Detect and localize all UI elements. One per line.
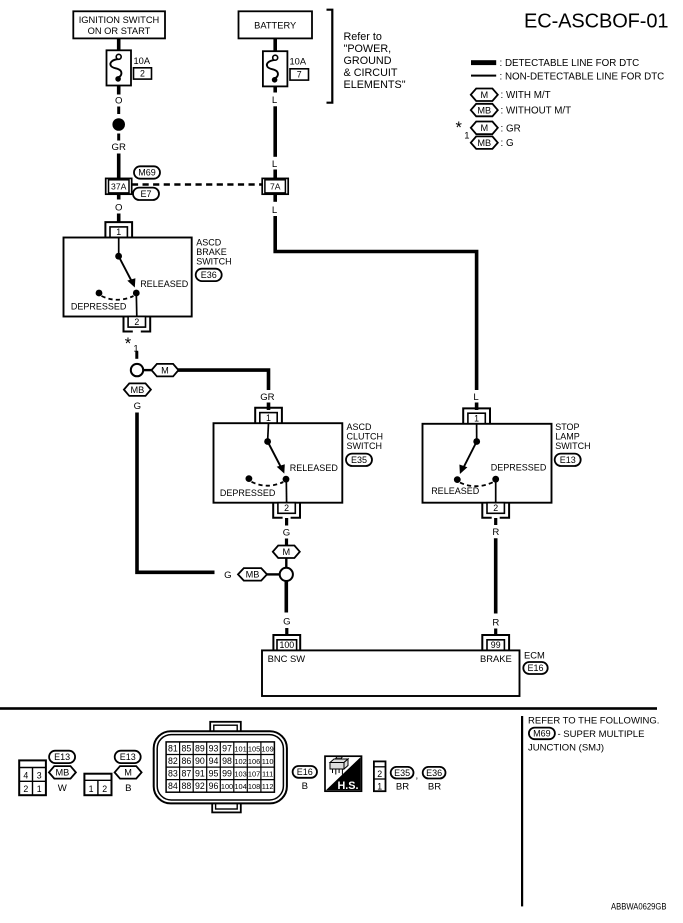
wire hexagon to joint bbox=[285, 558, 287, 568]
svg-text:H.S.: H.S. bbox=[338, 780, 359, 792]
fuse 10A no.7 bbox=[263, 51, 288, 86]
terminal 99 BRAKE bbox=[482, 635, 509, 650]
wire below fuse 2 bbox=[117, 86, 121, 95]
svg-text:ABBWA0629GB: ABBWA0629GB bbox=[611, 900, 667, 911]
stop lamp switch depressed contact bbox=[492, 476, 499, 483]
wire into clutch terminal bbox=[267, 403, 271, 411]
svg-text:E16: E16 bbox=[527, 663, 543, 673]
fuse number box 2 bbox=[134, 68, 152, 79]
svg-text:W: W bbox=[58, 783, 68, 794]
svg-text:M: M bbox=[480, 90, 488, 100]
legend: non-detectable line sample bbox=[471, 75, 496, 77]
connector oval M69 bbox=[134, 166, 160, 178]
clutch switch depressed contact bbox=[246, 475, 253, 482]
ASCD brake switch box E36 bbox=[64, 238, 192, 317]
terminal 100 BNC SW bbox=[273, 635, 300, 650]
svg-text:Refer to: Refer to bbox=[344, 31, 382, 43]
svg-text:1: 1 bbox=[474, 414, 479, 424]
dashed arc depressed-released clutch bbox=[252, 482, 284, 486]
svg-text:7A: 7A bbox=[270, 182, 281, 192]
clutch switch arm arrow to released bbox=[268, 442, 281, 467]
svg-text:: GR: : GR bbox=[501, 123, 521, 134]
svg-text:B: B bbox=[125, 783, 131, 794]
legend: detectable line sample bbox=[471, 60, 496, 65]
connector oval E16 bbox=[523, 662, 547, 674]
wire into brake switch terminal bbox=[117, 214, 121, 224]
svg-text:: WITH M/T: : WITH M/T bbox=[501, 90, 551, 101]
svg-text:1: 1 bbox=[37, 784, 42, 794]
option hexagon M clutch output bbox=[273, 546, 300, 559]
svg-text:E13: E13 bbox=[54, 752, 70, 762]
svg-text:2: 2 bbox=[284, 503, 289, 513]
ASCD clutch switch box E35 bbox=[214, 423, 343, 503]
H.S. data link mark bbox=[325, 756, 362, 792]
svg-text:1: 1 bbox=[464, 131, 469, 142]
connector oval E36 bbox=[423, 767, 446, 779]
ASCD clutch switch name bbox=[347, 422, 384, 451]
svg-text:DEPRESSED: DEPRESSED bbox=[71, 302, 127, 312]
legend hexagon MB without M/T bbox=[471, 104, 498, 117]
wire MB branch G down and right bbox=[137, 413, 215, 573]
svg-text:90: 90 bbox=[195, 756, 205, 766]
wire dash segment bbox=[117, 134, 120, 141]
vertical separator rule bbox=[521, 716, 523, 906]
svg-text:SWITCH: SWITCH bbox=[196, 256, 232, 266]
wire battery to fuse bbox=[273, 38, 277, 52]
ASCD brake switch name bbox=[196, 238, 232, 267]
svg-text:37A: 37A bbox=[111, 182, 127, 192]
joint circle brake output bbox=[131, 364, 143, 376]
ECM connector face E16 outline bbox=[154, 722, 287, 813]
inline connector 37A (SMJ) bbox=[106, 178, 132, 194]
clutch switch released contact bbox=[283, 476, 290, 483]
wire below clutch terminal 2 bbox=[285, 518, 288, 526]
stop lamp switch contact from terminal 1 bbox=[476, 424, 478, 442]
svg-text:BNC SW: BNC SW bbox=[268, 653, 306, 664]
svg-text:99: 99 bbox=[222, 769, 232, 779]
svg-text:- SUPER MULTIPLE: - SUPER MULTIPLE bbox=[558, 729, 645, 740]
brake switch arm arrow to released bbox=[119, 256, 132, 280]
wire dash segment bbox=[117, 107, 120, 115]
svg-text:2: 2 bbox=[134, 317, 139, 327]
svg-text:: DETECTABLE LINE FOR DTC: : DETECTABLE LINE FOR DTC bbox=[500, 58, 640, 69]
connector face E13 2-pin (M) bbox=[84, 774, 111, 796]
wire into terminal 99 bbox=[494, 629, 497, 636]
svg-text:"POWER,: "POWER, bbox=[344, 43, 392, 55]
svg-text:,: , bbox=[416, 771, 419, 782]
svg-text:83: 83 bbox=[168, 769, 178, 779]
wire L long segment bbox=[273, 106, 277, 157]
svg-text:E16: E16 bbox=[297, 767, 313, 777]
wire M branch to ASCD clutch switch bbox=[178, 370, 269, 390]
wire into stop lamp terminal bbox=[475, 403, 479, 411]
svg-text:JUNCTION (SMJ): JUNCTION (SMJ) bbox=[528, 742, 604, 753]
wire GR to connector 37A bbox=[117, 154, 121, 181]
svg-text:M: M bbox=[282, 547, 290, 557]
battery box bbox=[239, 11, 313, 38]
svg-text:2: 2 bbox=[23, 784, 28, 794]
svg-text:87: 87 bbox=[182, 769, 192, 779]
clutch switch contact from terminal 1 bbox=[267, 423, 270, 441]
stop lamp switch arm arrow to released bbox=[464, 442, 477, 467]
svg-text:92: 92 bbox=[195, 781, 205, 791]
wire MB hexagon to joint bbox=[267, 573, 280, 575]
svg-text:BATTERY: BATTERY bbox=[254, 21, 296, 31]
fuse number box 7 bbox=[290, 69, 309, 80]
svg-text:G: G bbox=[134, 401, 141, 412]
svg-text:2: 2 bbox=[377, 769, 382, 779]
svg-text:GR: GR bbox=[112, 142, 126, 153]
connector oval E13 (4-pin) bbox=[49, 751, 75, 763]
hexagon MB (4-pin connector) bbox=[49, 766, 76, 779]
brake switch contact from terminal 1 bbox=[118, 238, 120, 257]
horizontal separator rule bbox=[0, 707, 657, 710]
brake switch released contact bbox=[133, 290, 140, 297]
svg-text:109: 109 bbox=[261, 744, 273, 753]
svg-text:2: 2 bbox=[493, 503, 498, 513]
svg-text:1: 1 bbox=[377, 781, 382, 791]
svg-text:2: 2 bbox=[102, 784, 107, 794]
svg-text:3: 3 bbox=[37, 770, 42, 780]
dashed arc depressed-released bbox=[102, 296, 134, 300]
ECM box E16 bbox=[262, 650, 520, 696]
wire below stop terminal 2 bbox=[494, 518, 497, 525]
svg-text:107: 107 bbox=[248, 770, 260, 779]
svg-text:G: G bbox=[283, 527, 290, 538]
svg-text:ON OR START: ON OR START bbox=[88, 26, 151, 36]
svg-text:93: 93 bbox=[209, 743, 219, 753]
hexagon M (2-pin connector) bbox=[115, 766, 142, 779]
stop lamp switch released contact bbox=[454, 476, 461, 483]
svg-text:10A: 10A bbox=[134, 56, 151, 66]
wire ignition switch to fuse bbox=[117, 38, 121, 51]
svg-text:1: 1 bbox=[266, 413, 271, 423]
svg-text:: WITHOUT M/T: : WITHOUT M/T bbox=[501, 106, 572, 117]
svg-text:EC-ASCBOF-01: EC-ASCBOF-01 bbox=[524, 11, 668, 33]
svg-text:: NON-DETECTABLE LINE FOR DTC: : NON-DETECTABLE LINE FOR DTC bbox=[500, 71, 665, 82]
svg-text:85: 85 bbox=[182, 743, 192, 753]
wire to hexagon M bbox=[285, 539, 288, 546]
wire battery branch to stop lamp switch bbox=[275, 216, 476, 390]
svg-text:O: O bbox=[115, 202, 122, 213]
terminal 1 of ASCD brake switch bbox=[105, 222, 132, 237]
svg-text:R: R bbox=[492, 527, 499, 538]
svg-text:E35: E35 bbox=[394, 768, 410, 778]
connector oval E7 bbox=[133, 188, 159, 200]
svg-text:ELEMENTS": ELEMENTS" bbox=[344, 79, 406, 91]
connector face E35/E36 2-pin vertical bbox=[374, 761, 386, 791]
option hexagon M with M/T bbox=[152, 364, 179, 377]
svg-text:BR: BR bbox=[428, 782, 441, 793]
connector oval M69 (note) bbox=[529, 728, 555, 740]
wire below 7A bbox=[273, 194, 277, 202]
svg-text:E36: E36 bbox=[426, 768, 442, 778]
svg-text:7: 7 bbox=[297, 70, 302, 80]
svg-text:R: R bbox=[492, 618, 499, 629]
svg-text:L: L bbox=[272, 159, 278, 170]
svg-text:88: 88 bbox=[182, 781, 192, 791]
svg-text:111: 111 bbox=[262, 770, 273, 779]
svg-text:105: 105 bbox=[248, 744, 260, 753]
svg-text:112: 112 bbox=[262, 782, 274, 791]
dashed link between 37A and 7A bbox=[132, 183, 262, 185]
refer-to note text bbox=[344, 31, 406, 91]
svg-text:98: 98 bbox=[222, 756, 232, 766]
svg-text:L: L bbox=[473, 392, 479, 403]
connector oval E35 bbox=[346, 454, 372, 466]
svg-text:REFER TO THE FOLLOWING.: REFER TO THE FOLLOWING. bbox=[528, 715, 659, 726]
fuse 10A no.2 bbox=[107, 50, 132, 85]
svg-text:104: 104 bbox=[234, 782, 246, 791]
wire dash below *1 bbox=[135, 352, 138, 359]
svg-text:M: M bbox=[480, 123, 488, 133]
wire joint to hexagon M bbox=[143, 369, 152, 371]
ECM connector pin grid bbox=[166, 742, 274, 792]
svg-text:BRAKE: BRAKE bbox=[480, 653, 512, 664]
wire below 37A bbox=[117, 193, 121, 200]
svg-text:RELEASED: RELEASED bbox=[140, 279, 189, 289]
svg-text:BR: BR bbox=[396, 782, 409, 793]
svg-text:MB: MB bbox=[477, 138, 491, 148]
svg-text:94: 94 bbox=[209, 756, 219, 766]
connector oval E35 bbox=[391, 767, 414, 779]
svg-text:MB: MB bbox=[246, 570, 260, 580]
svg-text:*: * bbox=[125, 335, 132, 353]
svg-text:91: 91 bbox=[195, 769, 205, 779]
svg-text:MB: MB bbox=[477, 105, 491, 115]
svg-text:1: 1 bbox=[89, 784, 94, 794]
svg-text:100: 100 bbox=[279, 640, 294, 650]
stop lamp switch box E13 bbox=[423, 424, 552, 503]
svg-text:106: 106 bbox=[248, 757, 260, 766]
svg-text:DEPRESSED: DEPRESSED bbox=[491, 463, 547, 473]
legend hexagon MB G bbox=[471, 136, 498, 149]
svg-text:GROUND: GROUND bbox=[344, 55, 392, 67]
svg-text:97: 97 bbox=[222, 743, 232, 753]
svg-text:96: 96 bbox=[209, 781, 219, 791]
svg-text:M69: M69 bbox=[533, 729, 551, 739]
svg-text:1: 1 bbox=[116, 227, 121, 237]
wire G to ECM bbox=[284, 581, 288, 613]
legend hexagon M with M/T bbox=[471, 89, 498, 102]
connector oval E13 (2-pin) bbox=[115, 751, 141, 763]
terminal 2 of ASCD brake switch bbox=[124, 317, 151, 332]
terminal 1 of ASCD clutch switch bbox=[255, 408, 282, 423]
svg-text:O: O bbox=[115, 95, 122, 106]
svg-text:M: M bbox=[124, 768, 132, 778]
svg-text:82: 82 bbox=[168, 756, 178, 766]
terminal 2 of stop lamp switch bbox=[482, 503, 509, 518]
svg-text:L: L bbox=[272, 95, 278, 106]
svg-text:103: 103 bbox=[234, 770, 246, 779]
svg-text:100: 100 bbox=[221, 782, 233, 791]
svg-text:IGNITION SWITCH: IGNITION SWITCH bbox=[79, 15, 160, 25]
svg-text:B: B bbox=[302, 781, 308, 792]
svg-text:*: * bbox=[456, 119, 463, 137]
svg-text:E7: E7 bbox=[140, 189, 151, 199]
svg-text:102: 102 bbox=[234, 757, 246, 766]
svg-text:GR: GR bbox=[260, 392, 274, 403]
svg-text:SWITCH: SWITCH bbox=[347, 441, 383, 451]
svg-text:M: M bbox=[161, 365, 169, 375]
connector oval E13 bbox=[555, 454, 581, 466]
svg-text:DEPRESSED: DEPRESSED bbox=[220, 488, 276, 498]
svg-text:99: 99 bbox=[491, 640, 501, 650]
svg-text:E35: E35 bbox=[351, 455, 367, 465]
svg-text:101: 101 bbox=[234, 744, 246, 753]
H.S. connector icon bbox=[330, 757, 348, 775]
svg-text:10A: 10A bbox=[290, 57, 307, 67]
svg-text:SWITCH: SWITCH bbox=[555, 441, 591, 451]
dashed arc released-depressed stop lamp bbox=[460, 482, 493, 486]
terminal 1 of stop lamp switch bbox=[463, 408, 490, 423]
svg-text:E13: E13 bbox=[120, 752, 136, 762]
ignition switch box bbox=[73, 11, 165, 38]
legend hexagon M GR bbox=[471, 122, 498, 135]
svg-text:L: L bbox=[272, 205, 278, 216]
option hexagon MB at clutch output bbox=[238, 568, 267, 581]
connector oval E16 (face) bbox=[293, 766, 317, 778]
svg-text:E13: E13 bbox=[560, 455, 576, 465]
svg-text:& CIRCUIT: & CIRCUIT bbox=[344, 67, 398, 79]
svg-text:RELEASED: RELEASED bbox=[431, 486, 480, 496]
svg-text:: G: : G bbox=[501, 138, 514, 149]
splice dot color change bbox=[112, 118, 125, 131]
wire below fuse 7 bbox=[273, 86, 277, 92]
svg-text:2: 2 bbox=[140, 69, 145, 79]
svg-text:G: G bbox=[224, 570, 231, 581]
svg-text:M69: M69 bbox=[138, 168, 156, 178]
svg-text:4: 4 bbox=[23, 770, 28, 780]
svg-text:89: 89 bbox=[195, 743, 205, 753]
wire R long segment bbox=[494, 538, 498, 613]
brake switch depressed contact bbox=[96, 290, 103, 297]
svg-text:ECM: ECM bbox=[524, 650, 545, 661]
svg-text:MB: MB bbox=[56, 768, 70, 778]
svg-text:G: G bbox=[283, 617, 290, 628]
option hexagon MB without M/T bbox=[124, 383, 151, 396]
svg-text:84: 84 bbox=[168, 781, 178, 791]
svg-text:95: 95 bbox=[209, 769, 219, 779]
svg-text:81: 81 bbox=[168, 743, 178, 753]
joint circle clutch output bbox=[280, 568, 293, 581]
wire into terminal 100 bbox=[285, 628, 288, 636]
svg-text:108: 108 bbox=[248, 782, 260, 791]
svg-text:110: 110 bbox=[262, 757, 274, 766]
bracket for refer-to note bbox=[327, 10, 333, 103]
svg-text:86: 86 bbox=[182, 756, 192, 766]
svg-text:RELEASED: RELEASED bbox=[290, 463, 339, 473]
connector face E13 4-pin (MB) bbox=[19, 760, 46, 795]
terminal 2 of ASCD clutch switch bbox=[273, 503, 300, 518]
stop lamp switch name bbox=[555, 422, 591, 451]
svg-text:E36: E36 bbox=[201, 270, 217, 280]
inline connector 7A (SMJ) bbox=[262, 178, 288, 194]
wire into connector 7A bbox=[273, 170, 277, 180]
connector oval E36 bbox=[196, 269, 222, 281]
svg-text:MB: MB bbox=[131, 385, 145, 395]
